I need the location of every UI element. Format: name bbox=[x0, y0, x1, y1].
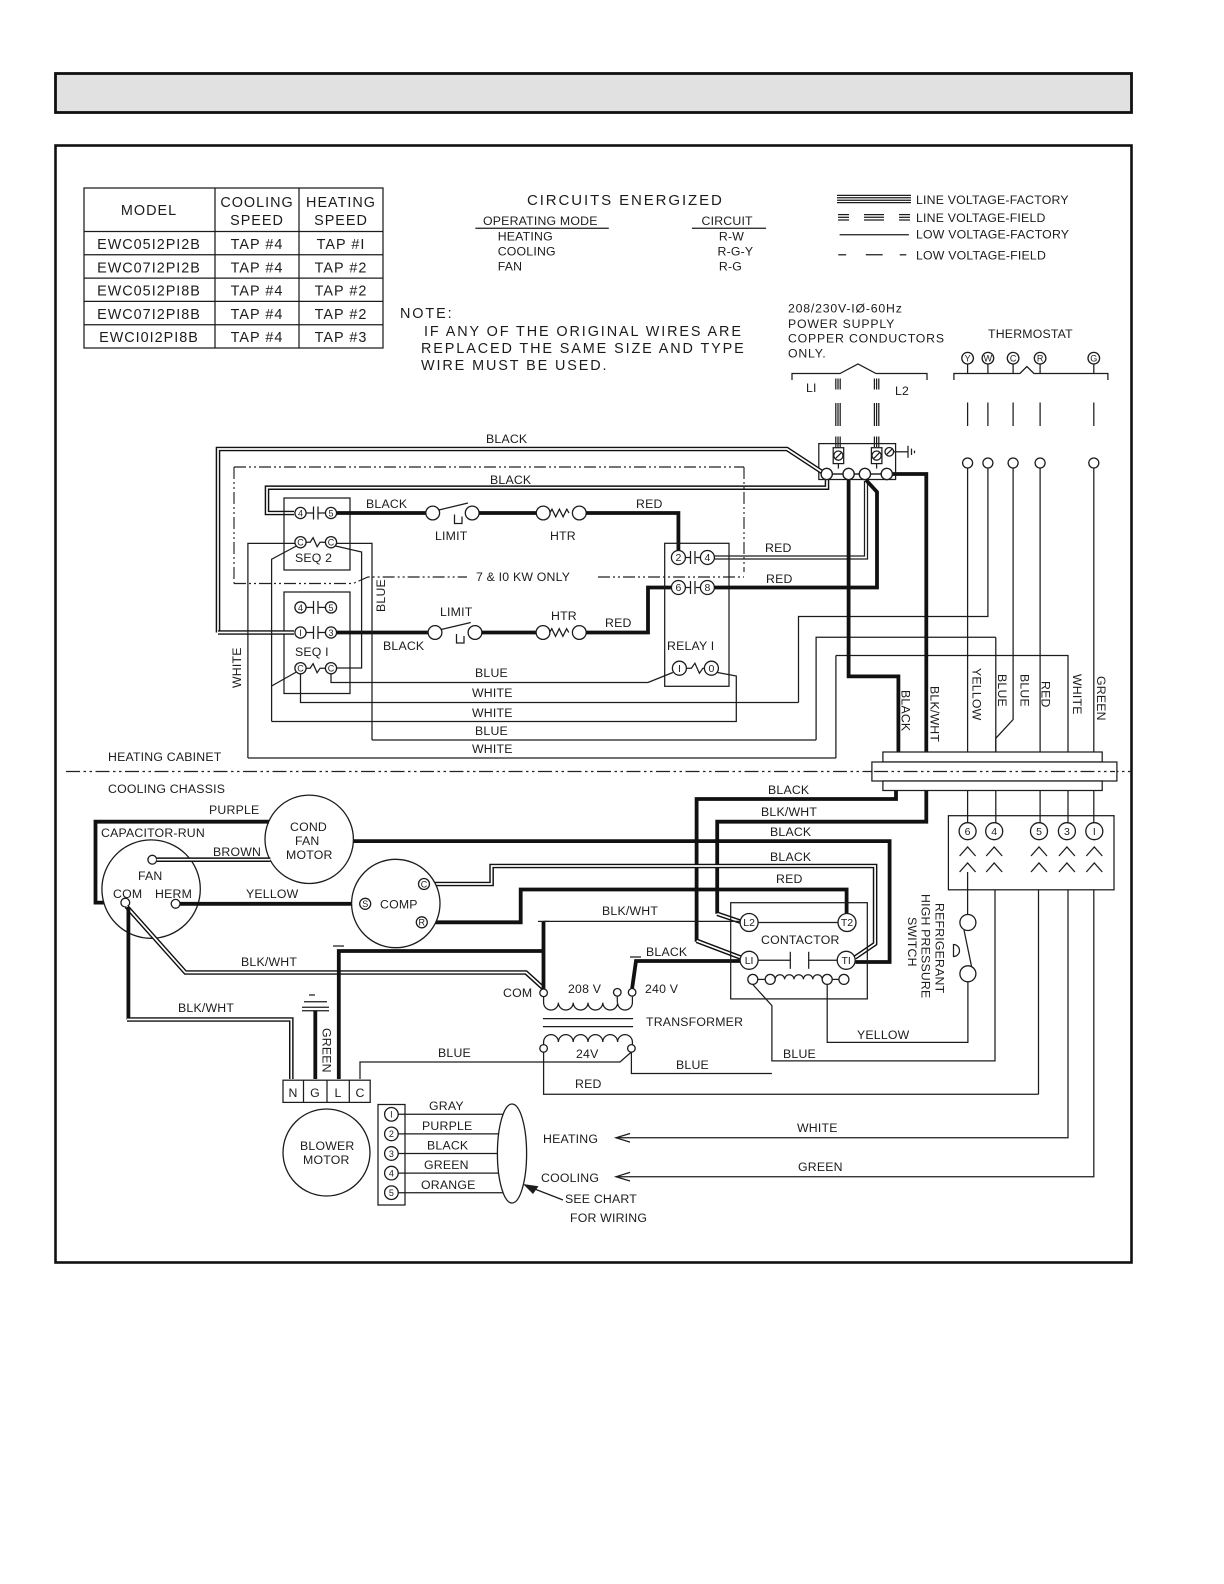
wire BLUE C terminal to transformer bbox=[360, 1052, 631, 1079]
wire blue junction vertical bbox=[995, 637, 997, 752]
svg-text:208 V: 208 V bbox=[568, 982, 602, 996]
blower wires to harness bbox=[398, 1114, 503, 1192]
svg-text:WIRE MUST BE USED.: WIRE MUST BE USED. bbox=[421, 358, 608, 374]
wire BROWN capacitor FAN to motor (double) bbox=[157, 857, 271, 862]
svg-text:HEATING CABINET: HEATING CABINET bbox=[108, 750, 222, 764]
wire black feeder SEQ1 (thick double) bbox=[218, 630, 294, 635]
svg-text:HERM: HERM bbox=[155, 887, 192, 901]
svg-text:S: S bbox=[362, 899, 368, 909]
sequencer SEQ2 bbox=[284, 498, 350, 570]
wire BLACK connector to contactor L1 bbox=[697, 791, 896, 942]
wire white seq1C to right bbox=[301, 674, 799, 703]
svg-text:GRAY: GRAY bbox=[429, 1099, 464, 1113]
wire BLK/WHT TB1-4 down bbox=[892, 474, 926, 752]
arrowhead heating bbox=[616, 1134, 630, 1143]
svg-text:5: 5 bbox=[328, 603, 333, 613]
heater element HTR lower bbox=[536, 609, 586, 639]
wire BLK/WHT cap COM to transformer COM (double) bbox=[127, 907, 544, 989]
TB1 terminal circles redraw bbox=[821, 468, 892, 479]
fuse holder screw 1 bbox=[833, 448, 844, 469]
svg-text:LIMIT: LIMIT bbox=[435, 529, 468, 543]
svg-text:5: 5 bbox=[389, 1188, 394, 1198]
wire black SEQ1 to limit bbox=[337, 631, 428, 635]
svg-text:EWC07I2PI8B: EWC07I2PI8B bbox=[97, 307, 201, 323]
terminal board 6 4 5 3 1 bbox=[948, 816, 1114, 890]
svg-text:7 & I0 KW ONLY: 7 & I0 KW ONLY bbox=[476, 570, 570, 584]
svg-text:HEATING: HEATING bbox=[498, 230, 553, 244]
table MODEL/COOLING/HEATING grid bbox=[84, 188, 383, 348]
see chart arrow bbox=[536, 1190, 563, 1201]
wire C thermostat down bbox=[996, 468, 1013, 752]
wire color labels bbox=[421, 1099, 476, 1192]
wire L2 feed thin bbox=[544, 920, 741, 922]
wire BLACK fan motor to contactor T1 bbox=[353, 841, 889, 962]
svg-text:COMP: COMP bbox=[380, 898, 418, 912]
svg-text:WHITE: WHITE bbox=[472, 706, 513, 720]
legend low-voltage-field symbol bbox=[838, 254, 906, 256]
svg-text:HTR: HTR bbox=[550, 529, 576, 543]
svg-text:C: C bbox=[297, 538, 304, 548]
svg-text:SWITCH: SWITCH bbox=[905, 917, 919, 967]
svg-text:TAP #4: TAP #4 bbox=[231, 260, 284, 276]
wire W thermostat to sequencers bbox=[799, 468, 988, 703]
svg-text:TAP #2: TAP #2 bbox=[315, 307, 368, 323]
svg-text:ONLY.: ONLY. bbox=[788, 347, 826, 361]
svg-text:YELLOW: YELLOW bbox=[969, 668, 983, 721]
svg-text:BLUE: BLUE bbox=[783, 1047, 816, 1061]
power terminal block TB1 bbox=[819, 444, 896, 480]
svg-text:BLACK: BLACK bbox=[770, 825, 812, 839]
table rows text bbox=[97, 237, 367, 346]
svg-text:I: I bbox=[678, 663, 681, 675]
svg-text:WHITE: WHITE bbox=[1070, 674, 1084, 715]
svg-text:208/230V-IØ-60Hz: 208/230V-IØ-60Hz bbox=[788, 302, 903, 316]
wire R thermostat down bbox=[1039, 468, 1041, 752]
wire G thermostat down bbox=[1093, 468, 1095, 752]
wire limit to htr lower bbox=[481, 631, 536, 635]
wire white heat to connector bbox=[836, 656, 1068, 753]
svg-text:HIGH PRESSURE: HIGH PRESSURE bbox=[919, 894, 933, 998]
svg-text:TI: TI bbox=[842, 955, 851, 967]
svg-text:BLACK: BLACK bbox=[899, 690, 913, 732]
svg-text:POWER SUPPLY: POWER SUPPLY bbox=[788, 317, 895, 331]
compressor COMP bbox=[352, 859, 440, 947]
svg-text:T2: T2 bbox=[841, 917, 853, 929]
svg-text:RELAY I: RELAY I bbox=[667, 639, 714, 653]
svg-text:FOR WIRING: FOR WIRING bbox=[570, 1211, 647, 1225]
svg-text:COPPER CONDUCTORS: COPPER CONDUCTORS bbox=[788, 332, 945, 346]
harness ellipse bbox=[497, 1104, 526, 1203]
svg-text:REFRIGERANT: REFRIGERANT bbox=[933, 903, 947, 994]
svg-text:HTR: HTR bbox=[551, 609, 577, 623]
wire C thermostat blue branch bbox=[816, 637, 996, 740]
svg-text:C: C bbox=[1010, 354, 1017, 364]
svg-text:I: I bbox=[390, 1110, 393, 1120]
ground screw bbox=[885, 448, 894, 457]
svg-text:GREEN: GREEN bbox=[320, 1028, 334, 1073]
svg-text:L2: L2 bbox=[743, 917, 755, 929]
svg-text:C: C bbox=[355, 1086, 364, 1100]
svg-text:R-W: R-W bbox=[719, 230, 744, 244]
svg-text:BLACK: BLACK bbox=[383, 639, 425, 653]
svg-text:ORANGE: ORANGE bbox=[421, 1178, 476, 1192]
svg-text:2: 2 bbox=[675, 552, 681, 564]
svg-text:RED: RED bbox=[605, 616, 632, 630]
svg-text:WHITE: WHITE bbox=[797, 1121, 838, 1135]
secondary winding bbox=[544, 1035, 633, 1046]
svg-text:4: 4 bbox=[389, 1168, 394, 1178]
chassis plug connector bbox=[872, 752, 1117, 791]
wire board1 green to cooling arrow bbox=[616, 890, 1094, 1177]
wire BLK/WHT connector to contactor L2 bbox=[717, 791, 926, 914]
wire seq2 leftC diagonal down bbox=[272, 546, 297, 722]
board feeder stubs from connector bbox=[968, 791, 1094, 823]
svg-text:I: I bbox=[299, 628, 302, 638]
wire white bottom bbox=[248, 757, 836, 759]
legend line-voltage-factory symbol bbox=[837, 195, 911, 202]
wire YELLOW coil to pressure switch bbox=[827, 982, 968, 1042]
svg-text:CAPACITOR-RUN: CAPACITOR-RUN bbox=[101, 826, 205, 840]
svg-text:WHITE: WHITE bbox=[230, 647, 244, 688]
wire YELLOW herm to comp S bbox=[180, 902, 355, 906]
svg-text:4: 4 bbox=[298, 508, 303, 518]
svg-text:TAP #4: TAP #4 bbox=[231, 237, 284, 253]
thermostat splice circles bbox=[963, 458, 1099, 468]
blower terminal strip 1-5 bbox=[378, 1105, 405, 1206]
svg-text:TAP #I: TAP #I bbox=[317, 237, 366, 253]
separator through connector bbox=[874, 771, 1115, 773]
chassis ground symbol bbox=[894, 446, 915, 458]
svg-text:BLACK: BLACK bbox=[768, 783, 810, 797]
limit switch lower bbox=[428, 605, 482, 643]
svg-text:BLUE: BLUE bbox=[676, 1058, 709, 1072]
note text bbox=[400, 306, 746, 374]
svg-text:YELLOW: YELLOW bbox=[857, 1028, 910, 1042]
fuse holder screw 2 bbox=[871, 448, 882, 469]
thermostat bracket bbox=[954, 367, 1108, 381]
wire black SEQ2 to limit bbox=[337, 511, 426, 515]
svg-text:RED: RED bbox=[636, 497, 663, 511]
svg-text:5: 5 bbox=[1036, 826, 1042, 838]
svg-text:2: 2 bbox=[389, 1129, 394, 1139]
svg-text:TAP #4: TAP #4 bbox=[231, 284, 284, 300]
svg-text:FAN: FAN bbox=[138, 869, 163, 883]
svg-text:BLK/WHT: BLK/WHT bbox=[602, 904, 658, 918]
svg-text:C: C bbox=[328, 538, 335, 548]
ground symbol earth bbox=[302, 995, 329, 1011]
wire board3 white to heating arrow bbox=[616, 890, 1068, 1138]
svg-text:SEQ I: SEQ I bbox=[295, 645, 329, 659]
svg-text:BLUE: BLUE bbox=[1018, 674, 1032, 707]
svg-text:FAN: FAN bbox=[295, 834, 320, 848]
svg-text:BLACK: BLACK bbox=[490, 473, 532, 487]
svg-text:C: C bbox=[328, 664, 335, 674]
sequencer SEQ1 bbox=[284, 592, 350, 694]
svg-text:SEQ 2: SEQ 2 bbox=[295, 551, 332, 565]
coil bbox=[748, 974, 758, 984]
svg-text:PURPLE: PURPLE bbox=[209, 803, 259, 817]
svg-text:RED: RED bbox=[765, 541, 792, 555]
wire BLACK line feed to L terminal bbox=[339, 951, 544, 1079]
svg-text:COOLING: COOLING bbox=[541, 1171, 599, 1185]
wire BLACK second double bbox=[267, 480, 827, 513]
wire white relay0 line bbox=[272, 673, 737, 722]
svg-text:MOTOR: MOTOR bbox=[286, 848, 333, 862]
svg-text:Y: Y bbox=[965, 354, 971, 364]
svg-text:R: R bbox=[1037, 354, 1044, 364]
thermostat terminal stems bbox=[968, 364, 1094, 374]
svg-text:COOLING CHASSIS: COOLING CHASSIS bbox=[108, 782, 225, 796]
pressure switch HPS bbox=[954, 872, 976, 982]
table header text bbox=[121, 195, 376, 229]
svg-text:LINE VOLTAGE-FIELD: LINE VOLTAGE-FIELD bbox=[916, 211, 1046, 225]
svg-text:CONTACTOR: CONTACTOR bbox=[761, 933, 840, 947]
svg-text:TAP #3: TAP #3 bbox=[315, 330, 368, 346]
svg-text:C: C bbox=[297, 664, 304, 674]
svg-text:4: 4 bbox=[991, 826, 997, 838]
svg-text:BLACK: BLACK bbox=[646, 945, 688, 959]
svg-text:BLACK: BLACK bbox=[770, 850, 812, 864]
svg-text:WHITE: WHITE bbox=[472, 686, 513, 700]
wire limit to htr upper bbox=[479, 511, 537, 515]
svg-text:BLK/WHT: BLK/WHT bbox=[761, 805, 817, 819]
svg-text:3: 3 bbox=[1064, 826, 1070, 838]
svg-text:8: 8 bbox=[704, 582, 710, 594]
svg-text:N: N bbox=[288, 1086, 297, 1100]
svg-text:BLACK: BLACK bbox=[427, 1139, 469, 1153]
svg-text:RED: RED bbox=[776, 872, 803, 886]
chassis separator dash line bbox=[66, 771, 1131, 773]
transformer T1 bbox=[503, 982, 743, 1061]
svg-text:240 V: 240 V bbox=[645, 982, 679, 996]
svg-text:BLK/WHT: BLK/WHT bbox=[927, 686, 941, 742]
TB1 terminal circles bbox=[821, 468, 892, 479]
wire white left vertical (SEQ2 C to bottom) bbox=[248, 543, 295, 758]
svg-text:BROWN: BROWN bbox=[213, 845, 261, 859]
svg-text:BLUE: BLUE bbox=[374, 579, 388, 612]
svg-text:COOLING: COOLING bbox=[498, 245, 556, 259]
svg-text:LOW VOLTAGE-FIELD: LOW VOLTAGE-FIELD bbox=[916, 249, 1046, 263]
svg-text:CIRCUITS ENERGIZED: CIRCUITS ENERGIZED bbox=[527, 192, 724, 209]
svg-text:R-G: R-G bbox=[719, 260, 742, 274]
primary terminals bbox=[540, 989, 548, 997]
wire RED transformer secondary left bbox=[544, 1052, 1039, 1094]
7&10KW dash-dot boundary bbox=[234, 467, 744, 584]
wire comp R to T2 bbox=[427, 890, 846, 923]
svg-text:EWC05I2PI2B: EWC05I2PI2B bbox=[97, 237, 201, 253]
svg-text:R: R bbox=[419, 918, 426, 928]
svg-text:SPEED: SPEED bbox=[230, 213, 284, 229]
wire BLUE transformer secondary right bbox=[631, 1052, 772, 1073]
title bar bbox=[56, 74, 1132, 113]
contactor CON bbox=[731, 903, 868, 999]
svg-text:EWC05I2PI8B: EWC05I2PI8B bbox=[97, 284, 201, 300]
svg-text:TAP #2: TAP #2 bbox=[315, 284, 368, 300]
power supply bracket bbox=[792, 364, 927, 380]
svg-text:MOTOR: MOTOR bbox=[303, 1153, 350, 1167]
terminal strip N G L C bbox=[283, 1080, 370, 1102]
svg-text:THERMOSTAT: THERMOSTAT bbox=[988, 327, 1073, 341]
cond fan motor M1 bbox=[265, 795, 353, 883]
svg-text:NOTE:: NOTE: bbox=[400, 306, 453, 322]
legend low-voltage-factory symbol bbox=[840, 234, 909, 236]
svg-text:SEE CHART: SEE CHART bbox=[565, 1192, 637, 1206]
svg-text:FAN: FAN bbox=[498, 260, 523, 274]
arrowhead cooling bbox=[616, 1172, 630, 1181]
svg-text:WHITE: WHITE bbox=[472, 742, 513, 756]
wire red htr to relay 6 bbox=[586, 588, 671, 633]
svg-text:OPERATING MODE: OPERATING MODE bbox=[483, 214, 598, 228]
svg-text:BLUE: BLUE bbox=[475, 724, 508, 738]
svg-text:BLACK: BLACK bbox=[486, 432, 528, 446]
wire transformer COM vertical bbox=[542, 921, 546, 989]
wire BLK/WHT cap COM to N terminal (double) bbox=[126, 907, 130, 1020]
svg-text:CIRCUIT: CIRCUIT bbox=[702, 214, 754, 228]
svg-text:EWCI0I2PI8B: EWCI0I2PI8B bbox=[99, 330, 199, 346]
wire GREEN ground to G terminal bbox=[313, 1011, 317, 1079]
wire PURPLE motor to capacitor COM bbox=[96, 822, 269, 903]
svg-text:REPLACED THE SAME SIZE AND TYP: REPLACED THE SAME SIZE AND TYPE bbox=[421, 341, 746, 357]
svg-text:BLUE: BLUE bbox=[438, 1046, 471, 1060]
svg-text:5: 5 bbox=[328, 508, 333, 518]
svg-text:0: 0 bbox=[708, 663, 714, 675]
svg-text:BLOWER: BLOWER bbox=[300, 1139, 355, 1153]
wire red relay8 to TB1 thick bbox=[714, 480, 877, 588]
svg-text:LI: LI bbox=[745, 955, 754, 967]
svg-text:YELLOW: YELLOW bbox=[246, 887, 299, 901]
wire seq1 leftC diagonal bbox=[272, 672, 297, 686]
svg-text:TAP #2: TAP #2 bbox=[315, 260, 368, 276]
wire blue seq1C to relay1 bbox=[331, 673, 673, 683]
svg-text:COND: COND bbox=[290, 820, 327, 834]
wire blue lower bbox=[372, 739, 816, 741]
limit switch upper bbox=[426, 503, 479, 543]
svg-text:TAP #4: TAP #4 bbox=[231, 330, 284, 346]
wire BLACK 240V to L1 bbox=[632, 961, 744, 989]
wire seq2 rightC diagonal to seq1 rightC bbox=[336, 546, 362, 668]
svg-text:4: 4 bbox=[704, 552, 710, 564]
svg-text:L: L bbox=[334, 1086, 341, 1100]
svg-text:W: W bbox=[984, 354, 993, 364]
svg-text:LOW VOLTAGE-FACTORY: LOW VOLTAGE-FACTORY bbox=[916, 228, 1069, 242]
svg-text:MODEL: MODEL bbox=[121, 203, 177, 219]
wire BLUE coil to board 4 bbox=[753, 890, 995, 1061]
field wiring hash marks L2 bbox=[874, 379, 878, 448]
svg-text:C: C bbox=[421, 879, 428, 889]
svg-text:RED: RED bbox=[575, 1077, 602, 1091]
svg-text:BLUE: BLUE bbox=[995, 674, 1009, 707]
field wiring hash marks L1 bbox=[836, 379, 840, 448]
svg-text:G: G bbox=[310, 1086, 320, 1100]
svg-text:BLK/WHT: BLK/WHT bbox=[178, 1001, 234, 1015]
svg-text:COOLING: COOLING bbox=[220, 195, 293, 211]
svg-text:HEATING: HEATING bbox=[306, 195, 376, 211]
svg-text:HEATING: HEATING bbox=[543, 1132, 598, 1146]
svg-text:G: G bbox=[1090, 354, 1097, 364]
svg-text:BLACK: BLACK bbox=[366, 497, 408, 511]
wire board5 to red24 bbox=[1038, 890, 1040, 1094]
svg-text:6: 6 bbox=[965, 826, 971, 838]
svg-text:RED: RED bbox=[1039, 681, 1053, 708]
core bbox=[543, 1018, 633, 1020]
wire Y thermostat down bbox=[967, 468, 969, 752]
svg-text:3: 3 bbox=[328, 628, 333, 638]
wire red relay4 to TB1 (double thin) bbox=[714, 481, 864, 556]
svg-text:GREEN: GREEN bbox=[798, 1160, 843, 1174]
svg-text:LIMIT: LIMIT bbox=[440, 605, 473, 619]
svg-text:PURPLE: PURPLE bbox=[422, 1119, 472, 1133]
mode rows bbox=[498, 230, 754, 274]
blower motor M2 bbox=[283, 1109, 370, 1196]
svg-text:COM: COM bbox=[113, 887, 142, 901]
svg-text:RED: RED bbox=[766, 572, 793, 586]
wire BLACK TB1-2 down bbox=[849, 480, 899, 752]
quick connect chevrons bbox=[960, 847, 1103, 872]
legend line-voltage-field symbol bbox=[838, 215, 910, 220]
svg-text:BLK/WHT: BLK/WHT bbox=[241, 955, 297, 969]
svg-text:I: I bbox=[1093, 826, 1096, 838]
svg-text:SPEED: SPEED bbox=[314, 213, 368, 229]
svg-text:GREEN: GREEN bbox=[1094, 676, 1108, 721]
thermostat terminals Y W C R G bbox=[962, 352, 1100, 364]
svg-text:GREEN: GREEN bbox=[424, 1158, 469, 1172]
svg-text:4: 4 bbox=[298, 603, 303, 613]
svg-text:LI: LI bbox=[806, 381, 817, 395]
svg-text:IF ANY OF THE ORIGINAL WIRES A: IF ANY OF THE ORIGINAL WIRES ARE bbox=[424, 324, 743, 340]
svg-text:TAP #4: TAP #4 bbox=[231, 307, 284, 323]
relay R1 bbox=[665, 543, 729, 686]
svg-text:BLUE: BLUE bbox=[475, 666, 508, 680]
svg-text:6: 6 bbox=[675, 582, 681, 594]
svg-text:TRANSFORMER: TRANSFORMER bbox=[646, 1015, 743, 1029]
main diagram border bbox=[56, 146, 1132, 1263]
svg-text:COM: COM bbox=[503, 986, 532, 1000]
heater element HTR upper bbox=[536, 506, 586, 543]
svg-text:L2: L2 bbox=[895, 384, 909, 398]
svg-text:R-G-Y: R-G-Y bbox=[718, 245, 754, 259]
thermostat field wires dashed bbox=[968, 403, 1094, 427]
svg-text:3: 3 bbox=[389, 1149, 394, 1159]
wire red htr to relay 2 bbox=[586, 513, 678, 551]
wire seq2 rightC to blue vertical bbox=[337, 543, 372, 740]
wire BLACK top double bbox=[218, 449, 822, 633]
wire comp C to T1 bbox=[430, 866, 876, 958]
svg-text:24V: 24V bbox=[576, 1047, 599, 1061]
primary winding bbox=[544, 997, 633, 1010]
run capacitor C1 bbox=[102, 840, 200, 938]
svg-text:EWC07I2PI2B: EWC07I2PI2B bbox=[97, 260, 201, 276]
svg-text:LINE VOLTAGE-FACTORY: LINE VOLTAGE-FACTORY bbox=[916, 193, 1069, 207]
power supply text bbox=[788, 302, 945, 361]
